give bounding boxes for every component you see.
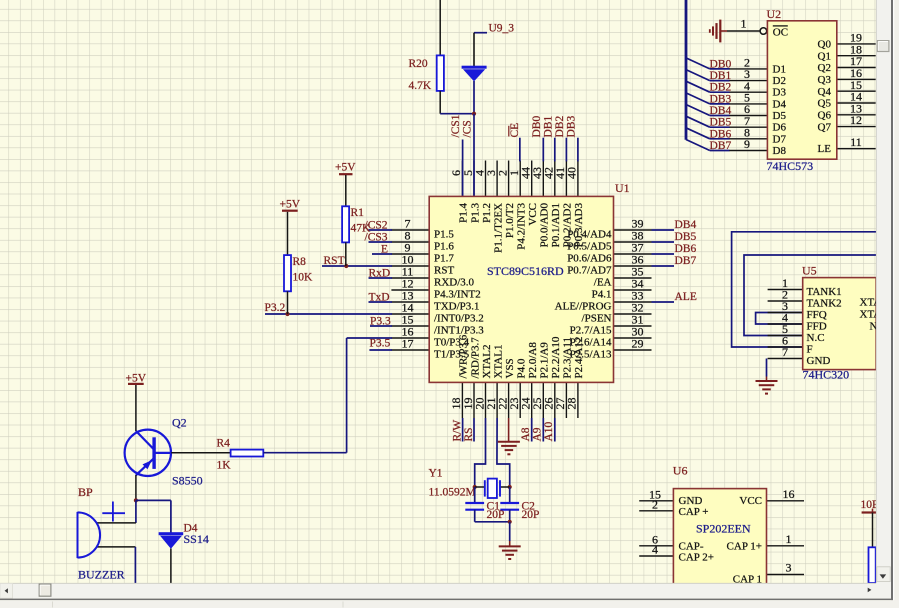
svg-text:DB7: DB7: [675, 255, 697, 267]
svg-text:DB0: DB0: [710, 58, 732, 70]
svg-text:1K: 1K: [217, 459, 232, 471]
svg-text:P0.7/AD7: P0.7/AD7: [567, 265, 612, 277]
svg-text:4.7K: 4.7K: [409, 80, 432, 92]
svg-text:P0.2/AD2: P0.2/AD2: [562, 203, 574, 247]
svg-text:Q2: Q2: [172, 416, 187, 430]
svg-text:P1.7: P1.7: [434, 253, 454, 265]
svg-text:/RD/P3.7: /RD/P3.7: [469, 337, 481, 379]
svg-text:D2: D2: [773, 75, 786, 87]
svg-text:DB7: DB7: [710, 140, 732, 152]
svg-text:U1: U1: [615, 181, 630, 195]
svg-text:P4.2/INT3: P4.2/INT3: [516, 203, 528, 250]
svg-text:XTAL2: XTAL2: [481, 345, 493, 379]
svg-text:F: F: [807, 344, 813, 356]
svg-text:P1.0/T2: P1.0/T2: [504, 203, 516, 238]
svg-text:DB1: DB1: [710, 70, 732, 82]
svg-text:R4: R4: [217, 437, 231, 449]
svg-text:RST: RST: [324, 255, 345, 267]
svg-text:RXD/3.0: RXD/3.0: [434, 277, 475, 289]
svg-text:Y1: Y1: [429, 468, 443, 480]
svg-text:OC: OC: [773, 27, 788, 39]
svg-text:P4.1: P4.1: [592, 289, 612, 301]
svg-text:R/W: R/W: [451, 420, 463, 442]
svg-text:CAP 1+: CAP 1+: [727, 541, 762, 553]
svg-text:10K: 10K: [293, 272, 314, 284]
svg-text:FFD: FFD: [807, 321, 827, 333]
svg-text:N.C: N.C: [807, 332, 825, 344]
svg-text:U6: U6: [673, 464, 688, 478]
svg-text:29: 29: [632, 337, 644, 351]
svg-text:P0.3/AD3: P0.3/AD3: [573, 203, 585, 248]
svg-text:DB2: DB2: [710, 82, 732, 94]
svg-text:74HC573: 74HC573: [767, 159, 814, 173]
svg-text:A8: A8: [520, 427, 532, 441]
svg-text:D5: D5: [773, 110, 787, 122]
svg-text:/EA: /EA: [594, 277, 612, 289]
svg-text:ALE: ALE: [675, 291, 697, 303]
svg-text:/PSEN: /PSEN: [582, 313, 612, 325]
svg-text:BP: BP: [78, 485, 93, 499]
svg-text:P2.1/A9: P2.1/A9: [539, 342, 551, 379]
svg-text:R20: R20: [409, 58, 428, 70]
svg-text:DB3: DB3: [710, 93, 732, 105]
svg-text:/CS1: /CS1: [450, 114, 462, 137]
svg-text:VCC: VCC: [527, 203, 539, 226]
svg-text:P2.2/A10: P2.2/A10: [550, 336, 562, 378]
svg-text:U9_3: U9_3: [489, 22, 515, 34]
svg-text:17: 17: [402, 337, 414, 351]
svg-text:DB1: DB1: [543, 116, 555, 138]
svg-text:D1: D1: [773, 63, 786, 75]
svg-text:CAP +: CAP +: [679, 506, 709, 518]
svg-text:U2: U2: [767, 7, 782, 21]
svg-text:P4.3/INT2: P4.3/INT2: [434, 289, 481, 301]
svg-text:Q0: Q0: [818, 39, 832, 51]
svg-text:1: 1: [786, 532, 792, 546]
svg-text:DB6: DB6: [710, 128, 732, 140]
svg-text:47K: 47K: [351, 223, 372, 235]
svg-text:16: 16: [783, 487, 795, 501]
svg-text:11: 11: [850, 135, 862, 149]
svg-text:40: 40: [565, 167, 579, 179]
svg-text:9: 9: [744, 137, 750, 151]
svg-text:P1.6: P1.6: [434, 241, 454, 253]
svg-text:P3.3: P3.3: [370, 315, 391, 327]
svg-text:LE: LE: [818, 143, 832, 155]
svg-text:S8550: S8550: [172, 474, 203, 488]
svg-text:/WR/P3.6: /WR/P3.6: [458, 334, 470, 378]
svg-text:P1.1/T2EX: P1.1/T2EX: [492, 203, 504, 253]
svg-text:ALE//PROG: ALE//PROG: [555, 301, 612, 313]
svg-text:CAP 2+: CAP 2+: [679, 552, 714, 564]
svg-text:DB4: DB4: [675, 219, 697, 231]
svg-text:2: 2: [652, 497, 658, 511]
svg-text:+5V: +5V: [280, 198, 301, 210]
svg-text:DB3: DB3: [566, 116, 578, 138]
svg-text:P0.1/AD1: P0.1/AD1: [550, 203, 562, 247]
svg-text:11.0592M: 11.0592M: [429, 486, 476, 498]
svg-text:VSS: VSS: [504, 358, 516, 378]
svg-text:A10: A10: [543, 421, 555, 441]
svg-text:D4: D4: [773, 98, 787, 110]
svg-text:P2.0/A8: P2.0/A8: [527, 342, 539, 379]
svg-text:Q7: Q7: [818, 121, 832, 133]
svg-text:P1.3: P1.3: [469, 203, 481, 223]
svg-text:DB5: DB5: [710, 117, 732, 129]
svg-text:RxD: RxD: [369, 267, 391, 279]
svg-text:/CS: /CS: [461, 120, 473, 137]
svg-text:3: 3: [786, 561, 792, 575]
svg-text:20P: 20P: [487, 509, 505, 521]
svg-text:Q5: Q5: [818, 98, 832, 110]
svg-text:RS: RS: [463, 427, 475, 441]
svg-text:P1.5: P1.5: [434, 229, 454, 241]
svg-text:P0.0/AD0: P0.0/AD0: [539, 203, 551, 248]
svg-text:P3.2: P3.2: [265, 302, 286, 314]
svg-text:Q3: Q3: [818, 74, 832, 86]
svg-text:P2.3/A11: P2.3/A11: [562, 337, 574, 378]
svg-text:XTAL1: XTAL1: [492, 345, 504, 379]
svg-text:SS14: SS14: [184, 532, 209, 546]
svg-text:P2.7/A15: P2.7/A15: [570, 325, 612, 337]
svg-text:1: 1: [741, 17, 747, 31]
svg-text:P0.6/AD6: P0.6/AD6: [567, 253, 612, 265]
svg-text:+5V: +5V: [335, 162, 356, 174]
svg-text:VCC: VCC: [739, 495, 762, 507]
svg-text:DB0: DB0: [531, 116, 543, 138]
svg-text:DB2: DB2: [554, 116, 566, 138]
svg-text:TANK2: TANK2: [807, 298, 842, 310]
svg-text:A9: A9: [532, 427, 544, 441]
svg-text:P3.5: P3.5: [370, 338, 391, 350]
svg-text:DB6: DB6: [675, 243, 697, 255]
svg-text:DB4: DB4: [710, 105, 732, 117]
svg-text:Q2: Q2: [818, 62, 831, 74]
svg-text:SP202EEN: SP202EEN: [696, 521, 751, 535]
svg-text:BUZZER: BUZZER: [78, 568, 125, 582]
svg-text:20P: 20P: [522, 509, 540, 521]
svg-text:TXD/P3.1: TXD/P3.1: [434, 301, 480, 313]
svg-text:P4.0: P4.0: [516, 358, 528, 378]
svg-text:D7: D7: [773, 133, 787, 145]
svg-text:Q1: Q1: [818, 50, 831, 62]
svg-text:R8: R8: [293, 256, 307, 268]
svg-text:P1.4: P1.4: [458, 203, 470, 223]
svg-text:RST: RST: [434, 265, 454, 277]
svg-text:FFQ: FFQ: [807, 309, 827, 321]
svg-text:DB5: DB5: [675, 231, 697, 243]
svg-text:D8: D8: [773, 145, 787, 157]
svg-text:STC89C516RD: STC89C516RD: [487, 264, 564, 278]
svg-text:P2.4/A12: P2.4/A12: [573, 337, 585, 379]
svg-text:D6: D6: [773, 122, 787, 134]
svg-text:Q6: Q6: [818, 110, 832, 122]
svg-text:74HC320: 74HC320: [803, 368, 850, 382]
svg-text:P1.2: P1.2: [481, 203, 493, 223]
svg-text:+5V: +5V: [126, 372, 147, 384]
svg-text:12: 12: [850, 113, 862, 127]
svg-text:GND: GND: [807, 355, 831, 367]
svg-text:R1: R1: [351, 207, 365, 219]
svg-text:TxD: TxD: [369, 291, 390, 303]
svg-text:/INT0/P3.2: /INT0/P3.2: [434, 313, 484, 325]
svg-text:CE: CE: [509, 123, 521, 138]
svg-text:4: 4: [652, 543, 658, 557]
svg-text:U5: U5: [802, 264, 817, 278]
svg-text:D3: D3: [773, 87, 787, 99]
svg-text:TANK1: TANK1: [807, 286, 842, 298]
svg-text:Q4: Q4: [818, 86, 832, 98]
svg-text:28: 28: [565, 398, 579, 410]
svg-text:7: 7: [782, 345, 788, 359]
svg-text:E: E: [381, 243, 388, 255]
